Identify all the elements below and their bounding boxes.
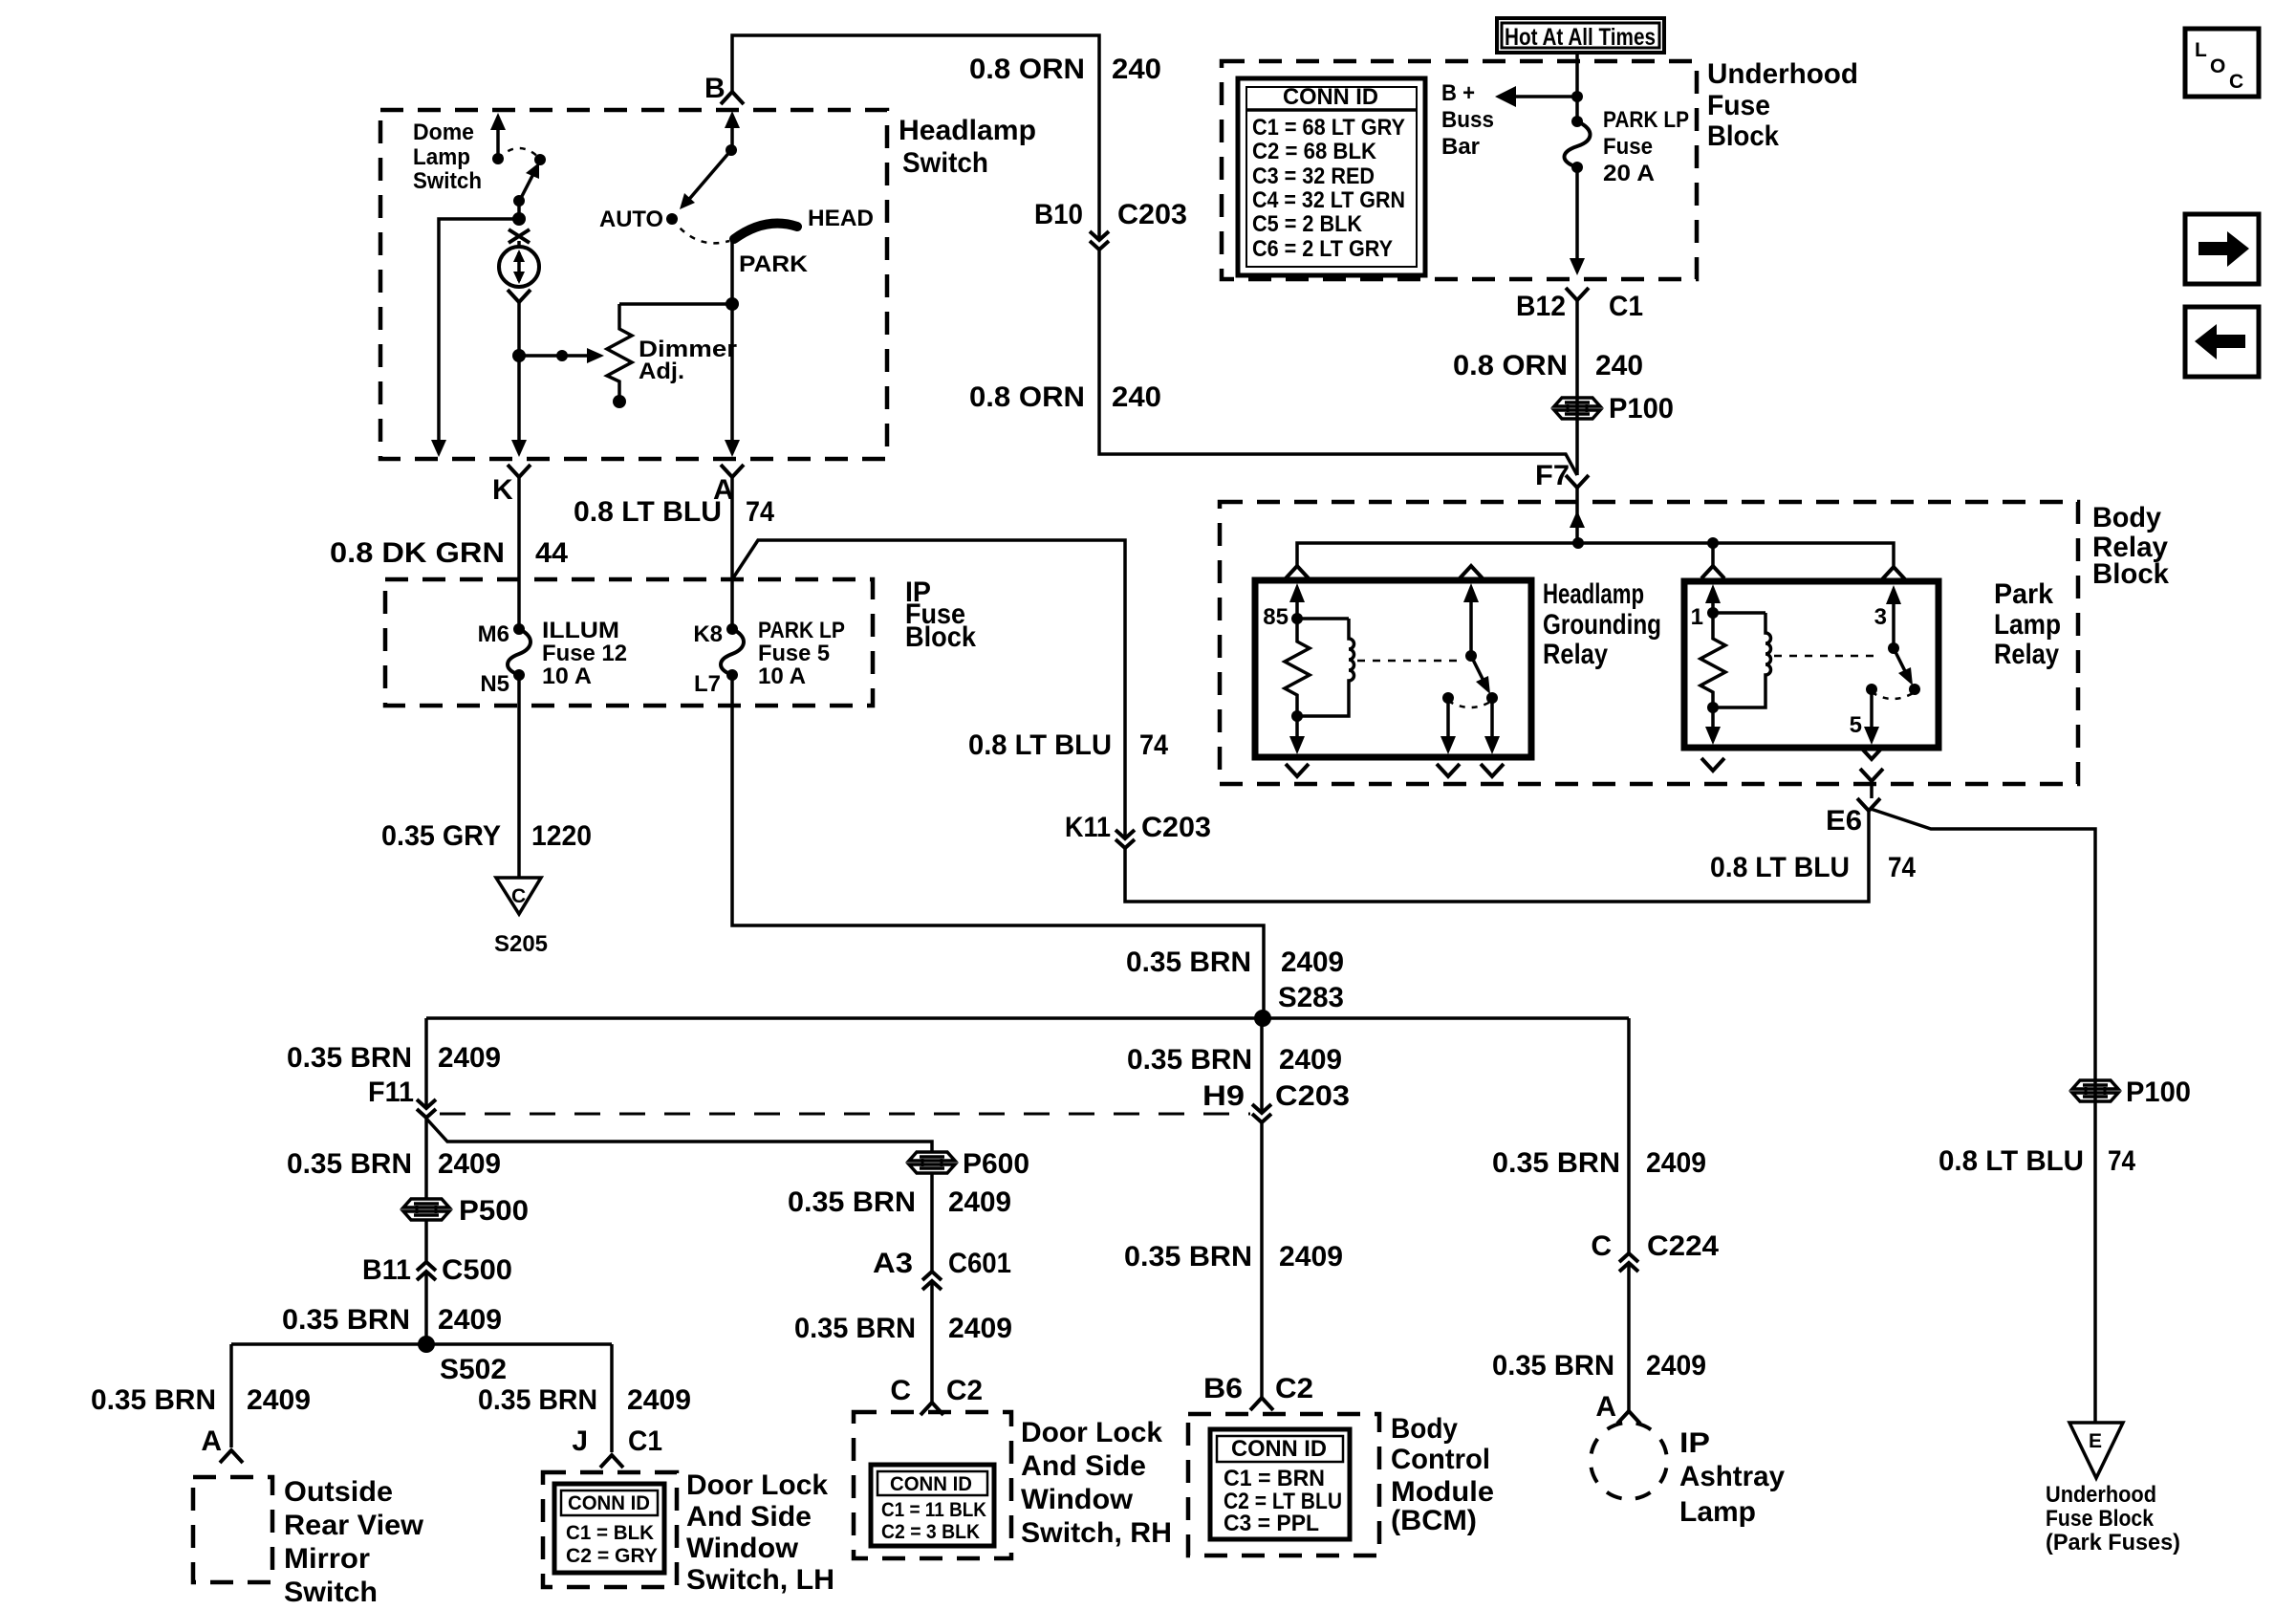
resistor relay U1 bbox=[1285, 619, 1310, 716]
svg-text:2409: 2409 bbox=[438, 1304, 502, 1336]
connector cup below 85 leg bbox=[1286, 764, 1309, 776]
relay U2 switch common pin 3 bbox=[1874, 585, 1901, 654]
splice S283 bbox=[1254, 982, 1344, 1027]
svg-text:Underhood: Underhood bbox=[1707, 58, 1858, 90]
svg-text:And Side: And Side bbox=[686, 1501, 812, 1533]
svg-text:2409: 2409 bbox=[438, 1148, 501, 1180]
wire PARK to A bbox=[725, 240, 740, 457]
svg-text:(Park Fuses): (Park Fuses) bbox=[2046, 1530, 2180, 1556]
svg-text:Park: Park bbox=[1994, 578, 2053, 610]
label 0.8 DK GRN 44 bbox=[330, 537, 568, 569]
svg-text:Relay: Relay bbox=[1994, 639, 2059, 670]
wire S283 to ashtray lamp bbox=[1627, 1018, 1631, 1253]
svg-text:2409: 2409 bbox=[1281, 946, 1344, 978]
connector C C2 bbox=[890, 1375, 983, 1415]
relay U1 switch common arrow bbox=[1463, 583, 1479, 662]
node B label bbox=[704, 73, 726, 104]
dome lamp switch arrow bbox=[490, 113, 506, 164]
svg-text:3: 3 bbox=[1874, 604, 1887, 630]
connector E6 bbox=[1826, 798, 1880, 837]
svg-text:240: 240 bbox=[1595, 350, 1643, 381]
label Dimmer Adj bbox=[639, 337, 737, 384]
svg-text:A3: A3 bbox=[873, 1248, 913, 1279]
IP ashtray lamp dashed circle bbox=[1591, 1423, 1667, 1499]
grommet P100 top bbox=[1554, 393, 1674, 424]
wire A branch diagonal to body relay feed bbox=[732, 540, 1125, 838]
relay U2 Park Lamp Relay box bbox=[1684, 581, 1939, 748]
svg-text:Block: Block bbox=[905, 621, 976, 653]
body relay block dashed box bbox=[1220, 502, 2078, 784]
svg-text:C2 = 3 BLK: C2 = 3 BLK bbox=[881, 1521, 980, 1543]
svg-text:E: E bbox=[2089, 1430, 2102, 1452]
splice S502 bbox=[418, 1336, 507, 1385]
svg-text:C1 = BLK: C1 = BLK bbox=[566, 1522, 654, 1544]
svg-text:C601: C601 bbox=[948, 1248, 1011, 1279]
svg-text:2409: 2409 bbox=[1279, 1044, 1342, 1076]
wire S502 left leg bbox=[229, 1344, 233, 1447]
label 0.35 BRN 2409 ashtray upper bbox=[1492, 1147, 1706, 1179]
Hot At All Times box bbox=[1497, 18, 1664, 53]
pin K8 L7 labels bbox=[693, 621, 723, 697]
svg-text:10 A: 10 A bbox=[542, 664, 592, 689]
svg-text:J: J bbox=[572, 1425, 588, 1457]
svg-text:Door Lock: Door Lock bbox=[686, 1469, 828, 1501]
svg-text:Fuse 5: Fuse 5 bbox=[758, 641, 830, 666]
coil relay U1 bbox=[1291, 619, 1354, 722]
label 0.35 BRN 2409 above S502 bbox=[282, 1304, 502, 1336]
svg-text:C2 = GRY: C2 = GRY bbox=[566, 1545, 658, 1567]
svg-text:C3 = PPL: C3 = PPL bbox=[1224, 1511, 1319, 1536]
wire dimmer top to park wire bbox=[619, 302, 732, 306]
label Park Lamp Relay bbox=[1994, 578, 2061, 670]
connector B10 C203 bbox=[1034, 199, 1187, 250]
svg-text:Switch, RH: Switch, RH bbox=[1021, 1517, 1172, 1549]
door lock LH dashed box bbox=[543, 1472, 677, 1587]
svg-text:0.35 BRN: 0.35 BRN bbox=[1492, 1350, 1614, 1382]
svg-text:C1 = BRN: C1 = BRN bbox=[1224, 1466, 1325, 1491]
svg-text:B11: B11 bbox=[362, 1254, 411, 1286]
fuse F5 PARK LP (K8/L7) bbox=[721, 623, 744, 681]
svg-text:0.35 GRY: 0.35 GRY bbox=[381, 820, 501, 852]
svg-text:C2 = 68 BLK: C2 = 68 BLK bbox=[1252, 139, 1377, 164]
svg-text:Body: Body bbox=[2092, 502, 2161, 533]
svg-text:Door Lock: Door Lock bbox=[1021, 1417, 1162, 1448]
connector F11 C203 bbox=[368, 1077, 436, 1118]
svg-text:L7: L7 bbox=[694, 671, 721, 697]
label Outside Rear View Mirror Switch bbox=[284, 1476, 424, 1608]
svg-text:0.35 BRN: 0.35 BRN bbox=[478, 1384, 597, 1416]
label IP Ashtray Lamp bbox=[1679, 1427, 1785, 1528]
wire into lamp bbox=[517, 241, 521, 247]
svg-text:10 A: 10 A bbox=[758, 664, 806, 689]
svg-text:A: A bbox=[201, 1425, 222, 1457]
svg-text:B12: B12 bbox=[1516, 291, 1566, 322]
body control module dashed box bbox=[1188, 1414, 1379, 1556]
label Headlamp Switch bbox=[899, 115, 1036, 179]
svg-text:Ashtray: Ashtray bbox=[1679, 1461, 1785, 1492]
wire fuse to B12 bbox=[1570, 167, 1585, 275]
svg-text:AUTO: AUTO bbox=[599, 207, 663, 232]
svg-text:B: B bbox=[704, 73, 726, 104]
wire B12 to F7 (0.8 ORN 240) bbox=[1575, 300, 1579, 475]
dimmer wiper arrow bbox=[519, 348, 604, 363]
svg-text:C1: C1 bbox=[1609, 291, 1643, 322]
svg-text:C5 = 2 BLK: C5 = 2 BLK bbox=[1252, 211, 1363, 237]
label Underhood Fuse Block (Park Fuses) bbox=[2046, 1482, 2180, 1556]
wire S502 right leg bbox=[610, 1344, 614, 1452]
pin 85 entry arrow bbox=[1263, 583, 1305, 630]
svg-text:Body: Body bbox=[1391, 1413, 1458, 1445]
coil-switch link dashed U2 bbox=[1774, 655, 1881, 658]
svg-text:CONN ID: CONN ID bbox=[568, 1492, 650, 1514]
label IP Fuse Block bbox=[905, 577, 976, 653]
svg-text:Switch: Switch bbox=[902, 147, 988, 179]
connector K11 C203 bbox=[1065, 812, 1211, 848]
wire dome lever to junction bbox=[517, 201, 521, 219]
label Door Lock And Side Window Switch RH bbox=[1021, 1417, 1172, 1549]
wire dome branch left bbox=[431, 219, 519, 457]
label 0.8 LT BLU 74 at A bbox=[574, 496, 774, 528]
connector cup below lamp bbox=[508, 290, 531, 302]
label Headlamp Grounding Relay bbox=[1543, 578, 1661, 670]
relay U2 contacts bbox=[1866, 684, 1920, 699]
wire pin1 leg to case bottom bbox=[1705, 707, 1721, 745]
CONN ID table BCM bbox=[1210, 1429, 1350, 1539]
node junction dome bbox=[512, 212, 526, 226]
svg-text:C3 = 32 RED: C3 = 32 RED bbox=[1252, 163, 1375, 189]
grommet P100 right bbox=[2072, 1077, 2191, 1108]
outside rear view mirror switch dashed box bbox=[193, 1477, 272, 1582]
label HEAD bbox=[808, 206, 874, 231]
svg-text:0.8 ORN: 0.8 ORN bbox=[1453, 350, 1568, 381]
svg-text:CONN ID: CONN ID bbox=[890, 1473, 972, 1495]
svg-text:Control: Control bbox=[1391, 1444, 1490, 1475]
wire S283 to H9 bbox=[1260, 1018, 1264, 1113]
wire F7 into body relay block bbox=[1570, 488, 1585, 543]
connector cups below contacts bbox=[1437, 764, 1504, 776]
fuse PARK LP 20 A bbox=[1565, 107, 1690, 186]
svg-text:0.35 BRN: 0.35 BRN bbox=[1492, 1147, 1620, 1179]
grommet P500 bbox=[403, 1195, 529, 1227]
relay U1 Headlamp Grounding Relay box bbox=[1255, 580, 1531, 757]
label 0.8 LT BLU 74 right bbox=[1939, 1145, 2135, 1177]
label Body Control Module (BCM) bbox=[1391, 1413, 1494, 1536]
svg-text:N5: N5 bbox=[480, 671, 509, 697]
svg-text:C6 = 2 LT GRY: C6 = 2 LT GRY bbox=[1252, 236, 1393, 262]
svg-text:S502: S502 bbox=[440, 1354, 507, 1385]
wire relay feed bus bbox=[1297, 537, 1894, 567]
wire B11 to S502 bbox=[424, 1272, 428, 1344]
svg-text:0.8 LT BLU: 0.8 LT BLU bbox=[1939, 1145, 2084, 1177]
label 0.35 BRN 2409 below F11 bbox=[287, 1148, 501, 1180]
svg-text:C224: C224 bbox=[1647, 1230, 1719, 1262]
label 0.35 BRN 2409 above S283 bbox=[1126, 946, 1344, 978]
svg-text:C1 = 68 LT GRY: C1 = 68 LT GRY bbox=[1252, 115, 1405, 141]
svg-text:C500: C500 bbox=[442, 1254, 512, 1286]
label 0.8 LT BLU 74 at E6 bbox=[1710, 852, 1916, 883]
svg-text:K: K bbox=[492, 474, 513, 506]
svg-text:Lamp: Lamp bbox=[1679, 1496, 1756, 1528]
svg-text:H9: H9 bbox=[1202, 1080, 1245, 1112]
ground triangle E bbox=[2069, 1423, 2123, 1478]
wire K to M6 (0.8 DK GRN 44) bbox=[517, 477, 521, 629]
svg-text:Fuse 12: Fuse 12 bbox=[542, 641, 627, 666]
svg-text:0.35 BRN: 0.35 BRN bbox=[282, 1304, 410, 1336]
wire C224 to A bbox=[1627, 1263, 1631, 1411]
svg-text:Buss: Buss bbox=[1441, 107, 1494, 133]
svg-text:0.35 BRN: 0.35 BRN bbox=[788, 1186, 916, 1218]
svg-text:0.35 BRN: 0.35 BRN bbox=[1127, 1044, 1252, 1076]
label 0.35 BRN 2409 RH bbox=[794, 1313, 1012, 1344]
wire P600 to A3 bbox=[930, 1172, 934, 1271]
back arrow box bbox=[2185, 307, 2259, 377]
svg-text:Window: Window bbox=[1021, 1484, 1134, 1515]
svg-text:P600: P600 bbox=[963, 1148, 1029, 1180]
headlamp selector arrow B bbox=[725, 111, 740, 156]
dashed connector line C203 bbox=[440, 1113, 1250, 1116]
label Underhood Fuse Block bbox=[1707, 58, 1858, 152]
CONN ID table LH bbox=[554, 1484, 664, 1573]
wire 85 leg to case bottom bbox=[1289, 716, 1305, 754]
underhood fuse block dashed box bbox=[1222, 61, 1697, 279]
svg-text:Module: Module bbox=[1391, 1476, 1494, 1508]
svg-text:Adj.: Adj. bbox=[639, 359, 684, 384]
svg-text:A: A bbox=[1595, 1391, 1616, 1423]
wire K11 to E6 bbox=[1125, 811, 1869, 902]
svg-text:0.35 BRN: 0.35 BRN bbox=[1126, 946, 1251, 978]
svg-text:0.8 ORN: 0.8 ORN bbox=[969, 54, 1085, 85]
svg-text:Fuse Block: Fuse Block bbox=[2046, 1506, 2155, 1532]
svg-text:Switch: Switch bbox=[284, 1577, 378, 1608]
pin M6 N5 labels bbox=[478, 621, 509, 697]
LOC box bbox=[2185, 29, 2259, 97]
svg-text:C: C bbox=[890, 1375, 911, 1406]
svg-text:2409: 2409 bbox=[1646, 1350, 1706, 1382]
relay U1 switch lever bbox=[1471, 656, 1490, 694]
svg-text:Fuse: Fuse bbox=[1707, 90, 1770, 121]
label 0.35 BRN 2409 ashtray lower bbox=[1492, 1350, 1706, 1382]
svg-text:Switch, LH: Switch, LH bbox=[686, 1564, 834, 1596]
wire B to B10 (0.8 ORN 240) bbox=[732, 35, 1099, 240]
label 0.35 BRN 2409 mirror bbox=[91, 1384, 311, 1416]
wire S283 left leg to F11 bbox=[424, 1018, 428, 1108]
svg-text:2409: 2409 bbox=[247, 1384, 311, 1416]
pin 5 leg bbox=[1850, 689, 1879, 745]
svg-text:Underhood: Underhood bbox=[2046, 1482, 2156, 1508]
svg-text:C4 = 32 LT GRN: C4 = 32 LT GRN bbox=[1252, 187, 1405, 213]
contact legs to case bottom bbox=[1440, 698, 1500, 754]
wire E6 branch to underhood park fuses bbox=[1871, 809, 2095, 1423]
forward arrow box bbox=[2185, 214, 2259, 284]
connector B6 C2 bbox=[1203, 1373, 1313, 1410]
svg-text:Lamp: Lamp bbox=[1994, 609, 2061, 641]
CONN ID table underhood bbox=[1238, 78, 1425, 275]
svg-text:Fuse: Fuse bbox=[1603, 134, 1653, 160]
coil relay U2 bbox=[1707, 613, 1771, 713]
coil-switch link dashed bbox=[1357, 660, 1462, 663]
svg-text:M6: M6 bbox=[478, 621, 509, 647]
svg-text:C1: C1 bbox=[628, 1425, 662, 1457]
wire pin 5 to E6 bbox=[1870, 781, 1874, 798]
svg-text:240: 240 bbox=[1112, 54, 1161, 85]
label Door Lock And Side Window Switch LH bbox=[686, 1469, 834, 1596]
HEAD position thick arc bbox=[734, 224, 797, 239]
wire S502 horizontal bbox=[231, 1342, 612, 1346]
svg-text:C1 = 11 BLK: C1 = 11 BLK bbox=[881, 1499, 986, 1521]
pin 1 entry arrow bbox=[1691, 584, 1721, 630]
svg-text:2409: 2409 bbox=[1279, 1241, 1343, 1273]
connector B11 C500 bbox=[362, 1254, 512, 1286]
svg-text:2409: 2409 bbox=[948, 1313, 1012, 1344]
CONN ID table RH bbox=[871, 1465, 994, 1546]
svg-text:Grounding: Grounding bbox=[1543, 609, 1661, 641]
label 0.8 ORN 240 top bbox=[969, 54, 1161, 85]
label ILLUM Fuse 12 10 A bbox=[542, 618, 627, 689]
svg-text:F7: F7 bbox=[1535, 460, 1570, 491]
svg-text:C: C bbox=[511, 885, 526, 907]
svg-text:1: 1 bbox=[1691, 604, 1703, 630]
label 0.35 BRN 2409 below P600 bbox=[788, 1186, 1011, 1218]
svg-text:CONN ID: CONN ID bbox=[1283, 84, 1378, 110]
svg-text:P100: P100 bbox=[2126, 1077, 2191, 1108]
label Body Relay Block bbox=[2092, 502, 2169, 590]
relay U2 switch lever bbox=[1894, 648, 1913, 685]
node dimmer junction bbox=[512, 349, 526, 362]
wire lamp to K bbox=[511, 302, 527, 457]
svg-text:0.8 DK GRN: 0.8 DK GRN bbox=[330, 537, 505, 569]
svg-text:Dome: Dome bbox=[413, 120, 474, 145]
connector cup K bbox=[492, 465, 531, 506]
svg-text:20 A: 20 A bbox=[1603, 161, 1655, 186]
connector cup above pin 1 bbox=[1701, 566, 1724, 578]
headlamp switch dashed box bbox=[380, 110, 887, 459]
label 0.35 GRY 1220 bbox=[381, 820, 592, 852]
svg-text:74: 74 bbox=[1888, 852, 1916, 883]
svg-text:Hot At All Times: Hot At All Times bbox=[1505, 24, 1656, 51]
wire A to K8 bbox=[730, 477, 734, 629]
grommet P600 bbox=[909, 1148, 1029, 1180]
svg-text:Headlamp: Headlamp bbox=[1543, 578, 1644, 610]
svg-text:CONN ID: CONN ID bbox=[1231, 1436, 1327, 1462]
svg-text:74: 74 bbox=[746, 496, 774, 528]
svg-text:L: L bbox=[2195, 39, 2207, 61]
svg-text:0.35 BRN: 0.35 BRN bbox=[287, 1148, 412, 1180]
dome switch lever bbox=[513, 163, 539, 207]
svg-text:E6: E6 bbox=[1826, 805, 1862, 837]
node park junction bbox=[726, 297, 739, 311]
svg-text:C203: C203 bbox=[1141, 812, 1211, 843]
svg-text:0.8 LT BLU: 0.8 LT BLU bbox=[1710, 852, 1850, 883]
svg-text:C2: C2 bbox=[946, 1375, 983, 1406]
lamp symbol bbox=[499, 247, 539, 287]
node AUTO bbox=[599, 207, 678, 232]
splice S205 ground triangle C bbox=[494, 878, 548, 957]
svg-text:C: C bbox=[2229, 71, 2243, 93]
svg-text:Switch: Switch bbox=[413, 168, 482, 194]
svg-text:0.35 BRN: 0.35 BRN bbox=[794, 1313, 916, 1344]
wire hot to fuse bbox=[1571, 53, 1583, 121]
connector cups below pin 5 bbox=[1860, 747, 1883, 781]
label 0.35 BRN 2409 LH bbox=[478, 1384, 691, 1416]
svg-text:HEAD: HEAD bbox=[808, 206, 874, 231]
label 0.8 ORN 240 second bbox=[969, 381, 1161, 413]
label PARK bbox=[739, 251, 809, 277]
svg-text:B +: B + bbox=[1441, 80, 1475, 106]
svg-text:0.8 ORN: 0.8 ORN bbox=[969, 381, 1085, 413]
svg-text:2409: 2409 bbox=[627, 1384, 691, 1416]
svg-text:C2: C2 bbox=[1275, 1373, 1313, 1404]
svg-text:Window: Window bbox=[686, 1533, 799, 1564]
connector cup above 85 bbox=[1286, 566, 1309, 578]
connector C C224 bbox=[1591, 1230, 1719, 1272]
connector cup B bbox=[721, 92, 744, 104]
svg-text:2409: 2409 bbox=[438, 1042, 501, 1074]
svg-text:And Side: And Side bbox=[1021, 1450, 1146, 1482]
label 0.35 BRN 2409 below S283 bbox=[1127, 1044, 1342, 1076]
svg-text:5: 5 bbox=[1850, 712, 1862, 738]
label 0.8 LT BLU 74 mid bbox=[968, 729, 1168, 761]
svg-text:IP: IP bbox=[1679, 1427, 1710, 1459]
selector lever to AUTO bbox=[680, 150, 731, 209]
svg-text:K8: K8 bbox=[693, 621, 723, 647]
svg-text:0.35 BRN: 0.35 BRN bbox=[91, 1384, 216, 1416]
label 0.8 ORN 240 at B12 bbox=[1453, 350, 1643, 381]
selector travel dashed arc bbox=[672, 219, 729, 243]
wire H9 to B6 (BCM) bbox=[1260, 1122, 1264, 1398]
svg-text:Lamp: Lamp bbox=[413, 144, 470, 170]
svg-text:0.35 BRN: 0.35 BRN bbox=[1124, 1241, 1252, 1273]
svg-text:1220: 1220 bbox=[531, 820, 592, 852]
connector B12 C1 bbox=[1516, 288, 1643, 322]
svg-text:PARK LP: PARK LP bbox=[1603, 107, 1689, 133]
connector H9 C203 bbox=[1202, 1080, 1350, 1122]
svg-text:44: 44 bbox=[535, 537, 568, 569]
wire branch F11 to P600 bbox=[427, 1120, 932, 1153]
svg-text:C203: C203 bbox=[1275, 1080, 1350, 1112]
connector pair inside switch bbox=[509, 229, 530, 243]
svg-text:Block: Block bbox=[1707, 120, 1779, 152]
relay U1 contacts bbox=[1442, 692, 1498, 707]
connector cup A ashtray bbox=[1595, 1391, 1640, 1424]
svg-text:PARK LP: PARK LP bbox=[758, 618, 845, 643]
wire N5 to S205 (0.35 GRY 1220) bbox=[517, 675, 521, 878]
connector cup A mirror bbox=[201, 1425, 243, 1463]
wire S283 horizontal run bbox=[426, 1016, 1629, 1020]
connector A3 C601 bbox=[873, 1248, 1011, 1290]
label Dome Lamp Switch bbox=[413, 120, 482, 194]
wire B10 to F7 (0.8 ORN 240) bbox=[1099, 250, 1577, 475]
svg-text:Outside: Outside bbox=[284, 1476, 393, 1508]
svg-text:85: 85 bbox=[1263, 604, 1289, 630]
dome switch right contact dot bbox=[534, 154, 546, 165]
IP fuse block dashed box bbox=[385, 579, 873, 706]
svg-text:240: 240 bbox=[1112, 381, 1161, 413]
svg-text:(BCM): (BCM) bbox=[1391, 1505, 1477, 1536]
connector cup A bbox=[713, 465, 744, 506]
svg-text:0.8 LT BLU: 0.8 LT BLU bbox=[968, 729, 1112, 761]
svg-text:0.8 LT BLU: 0.8 LT BLU bbox=[574, 496, 722, 528]
svg-text:S205: S205 bbox=[494, 931, 548, 957]
svg-text:S283: S283 bbox=[1278, 982, 1344, 1013]
connector cup above pin 3 bbox=[1882, 567, 1905, 579]
svg-text:ILLUM: ILLUM bbox=[542, 618, 619, 643]
svg-text:74: 74 bbox=[2108, 1145, 2135, 1177]
svg-text:Mirror: Mirror bbox=[284, 1543, 370, 1575]
label 0.35 BRN 2409 BCM bbox=[1124, 1241, 1343, 1273]
connector J C1 bbox=[572, 1425, 662, 1468]
svg-text:Bar: Bar bbox=[1441, 134, 1480, 160]
resistor relay U2 bbox=[1700, 613, 1725, 707]
